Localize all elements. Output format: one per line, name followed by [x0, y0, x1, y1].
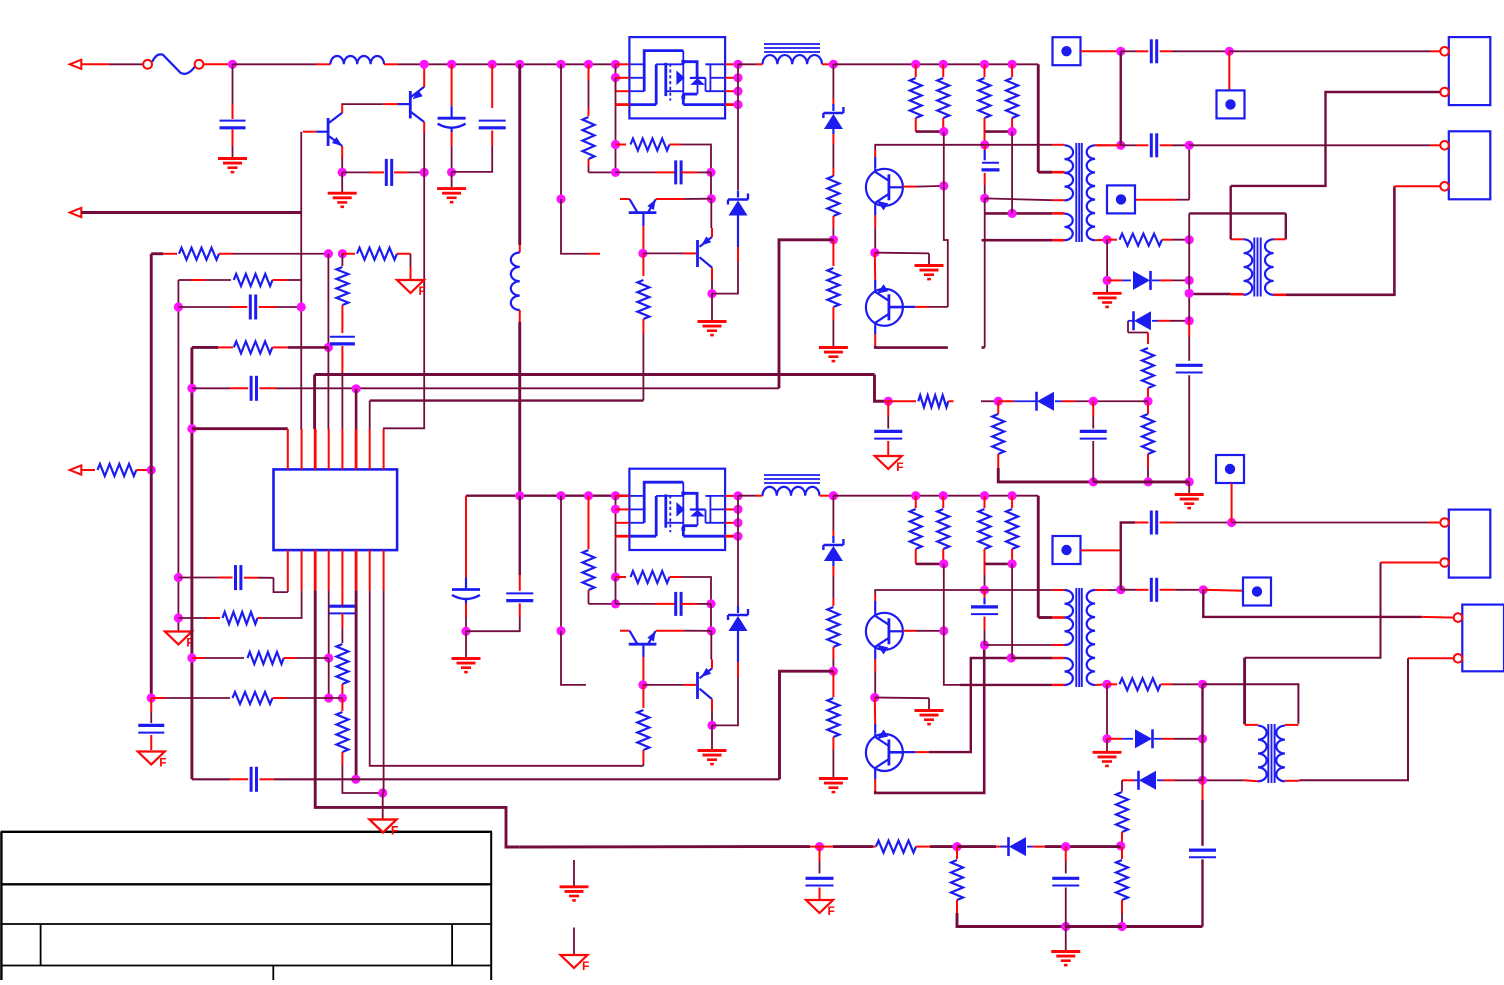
svg-text:F: F — [391, 824, 398, 838]
svg-text:F: F — [159, 756, 166, 770]
svg-text:F: F — [896, 460, 903, 474]
svg-text:F: F — [582, 959, 589, 973]
svg-text:F: F — [419, 284, 426, 298]
svg-text:F: F — [828, 904, 835, 918]
